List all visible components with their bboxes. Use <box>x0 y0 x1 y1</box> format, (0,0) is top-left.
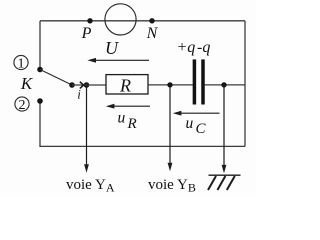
voltage arrow U <box>87 58 149 63</box>
node ground junction dot <box>221 82 226 87</box>
wire to ground (vertical with arrowhead) <box>222 85 227 173</box>
wire voie YB (vertical with arrowhead) <box>168 85 173 171</box>
svg-text:2: 2 <box>19 98 26 113</box>
svg-text:i: i <box>77 87 81 102</box>
switch K contact 2 dot <box>37 98 43 104</box>
svg-text:R: R <box>119 76 131 96</box>
wire to resistor <box>72 84 106 86</box>
switch K contact 1 dot <box>37 67 43 73</box>
switch arm wire <box>40 70 72 86</box>
switch arm end dot <box>69 82 75 88</box>
wire top <box>40 20 245 22</box>
svg-text:R: R <box>127 116 137 132</box>
node B dot (junction to voie YB) <box>167 82 172 87</box>
wire left lower (contact 2 to bottom wire) <box>39 101 41 146</box>
node N dot <box>149 18 154 23</box>
wire right side <box>244 21 246 147</box>
generator G circle <box>105 4 136 35</box>
svg-text:1: 1 <box>18 56 25 71</box>
wire left upper (top corner to contact 1) <box>39 21 41 70</box>
position label 2 (circled) <box>15 97 29 113</box>
ground symbol <box>208 175 241 190</box>
svg-text:voie YB: voie YB <box>148 177 196 195</box>
voltage arrow uC <box>173 111 220 116</box>
svg-text:K: K <box>20 74 34 93</box>
svg-text:P: P <box>81 25 92 42</box>
node A dot (junction to voie YA) <box>84 82 90 88</box>
node P dot <box>87 18 92 23</box>
voltage arrow uR <box>106 104 150 109</box>
svg-text:u: u <box>186 115 194 132</box>
capacitor C right plate <box>201 59 205 104</box>
wire capacitor to right side <box>205 84 245 86</box>
svg-text:-q: -q <box>197 39 210 56</box>
capacitor C left plate <box>193 59 197 104</box>
current direction arrow i <box>80 82 84 89</box>
svg-text:+q: +q <box>177 39 196 56</box>
resistor R box <box>106 75 148 94</box>
position label 1 (circled) <box>14 55 28 71</box>
svg-text:U: U <box>105 38 119 58</box>
wire resistor to capacitor <box>148 84 193 86</box>
svg-text:u: u <box>118 109 126 126</box>
svg-text:C: C <box>196 121 207 137</box>
svg-text:N: N <box>146 25 159 42</box>
wire bottom <box>39 145 245 147</box>
svg-text:voie YA: voie YA <box>66 177 115 195</box>
wire voie YA (vertical with arrowhead) <box>84 85 89 173</box>
